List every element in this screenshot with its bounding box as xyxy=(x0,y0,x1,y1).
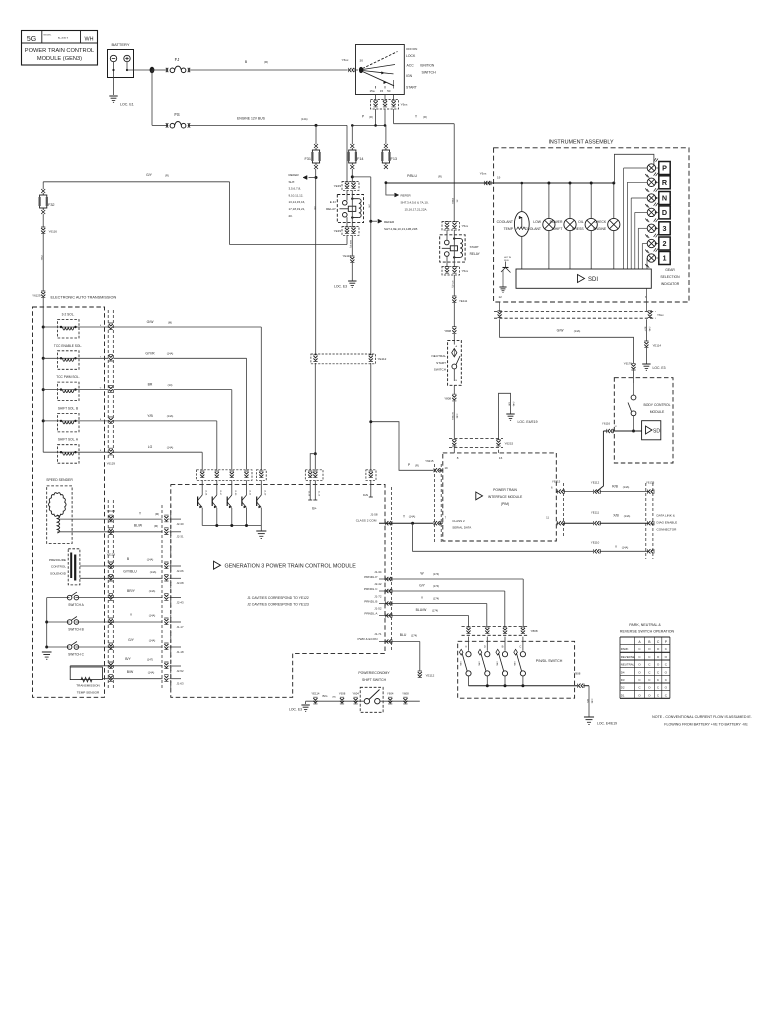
svg-text:YE39: YE39 xyxy=(334,229,342,233)
transistor instrument driver xyxy=(499,257,511,292)
solenoid 3-2 SOL. xyxy=(43,313,108,339)
power train control module box xyxy=(171,484,385,697)
wire P/N/DL common rail xyxy=(469,684,590,687)
svg-text:16: 16 xyxy=(499,456,503,460)
fuse FJ xyxy=(166,57,190,73)
transmission temp sensor xyxy=(70,667,102,694)
svg-text:BLU: BLU xyxy=(400,633,407,637)
svg-text:D: D xyxy=(662,208,667,217)
switch P/N/DL contact A xyxy=(459,637,471,686)
svg-text:YE111: YE111 xyxy=(459,299,468,303)
lamp low coolant xyxy=(525,182,555,270)
svg-text:YE112: YE112 xyxy=(591,481,600,485)
svg-text:P/N/DL SWITCH: P/N/DL SWITCH xyxy=(536,659,563,663)
svg-text:J2-52: J2-52 xyxy=(177,669,184,673)
svg-text:(R): (R) xyxy=(165,173,169,177)
svg-text:PRNDL A: PRNDL A xyxy=(364,611,378,615)
connector Y604 pwr econ xyxy=(387,691,394,704)
svg-text:J1-18: J1-18 xyxy=(177,650,184,654)
power economy shift switch xyxy=(358,671,390,713)
SDI driver box xyxy=(516,269,651,288)
wire B/W temp sensor xyxy=(102,670,162,679)
svg-text:SWITCH B: SWITCH B xyxy=(68,628,84,632)
connector Y604 pwr econ xyxy=(352,691,359,704)
power train interface module xyxy=(443,453,557,541)
svg-text:(174): (174) xyxy=(433,584,439,588)
svg-text:G/W: G/W xyxy=(147,320,155,324)
svg-text:B/W (R): B/W (R) xyxy=(349,240,351,248)
svg-text:12: 12 xyxy=(499,295,503,299)
svg-text:RUN: RUN xyxy=(504,260,509,262)
connector PCM J2-52 xyxy=(164,662,184,673)
battery xyxy=(108,42,134,95)
svg-text:YE39: YE39 xyxy=(334,184,342,188)
connector Y6129 SHIFT SOL. A xyxy=(109,448,113,455)
wire F31 down to PCM B+ xyxy=(313,169,316,454)
connector Y808 upper xyxy=(444,327,456,334)
svg-text:J1-72: J1-72 xyxy=(374,594,382,598)
connector PCM J2-43 xyxy=(164,594,184,605)
svg-text:LOC. E4/E19: LOC. E4/E19 xyxy=(597,722,617,726)
svg-text:NEUTRAL: NEUTRAL xyxy=(621,663,635,667)
svg-text:GRN: GRN xyxy=(459,661,461,666)
wire Y808 pin 8 into PIM xyxy=(453,447,455,453)
svg-text:YE116: YE116 xyxy=(343,254,352,258)
svg-text:(174): (174) xyxy=(432,608,438,612)
svg-text:YE114: YE114 xyxy=(653,344,662,348)
svg-text:J1-52: J1-52 xyxy=(374,606,382,610)
svg-text:J2-30: J2-30 xyxy=(177,522,184,526)
svg-text:J2-50: J2-50 xyxy=(234,490,236,496)
connector column Y6129 lower xyxy=(108,500,113,688)
connector Y6129 3-2 SOL. xyxy=(109,323,113,330)
connector Y6215 pin6 xyxy=(558,489,565,493)
gear selection indicator boxes xyxy=(659,162,680,287)
connector Y6xx instrument xyxy=(480,172,501,186)
svg-text:POWER/ECONOMY: POWER/ECONOMY xyxy=(358,671,390,675)
svg-text:SHT.: SHT. xyxy=(289,180,296,184)
svg-text:P: P xyxy=(662,164,667,173)
wire G/W solenoid to PCM xyxy=(114,320,262,466)
switch neutral start xyxy=(432,334,462,385)
svg-text:START: START xyxy=(436,361,446,365)
connector row Y808 xyxy=(462,627,538,636)
wire P(R) ignition feed to PIM xyxy=(369,420,443,470)
svg-text:F32: F32 xyxy=(48,203,55,207)
svg-text:J1-34: J1-34 xyxy=(374,570,382,574)
svg-text:15,16,17,21,22A.: 15,16,17,21,22A. xyxy=(405,208,428,212)
connector row Y6215 xyxy=(449,439,514,448)
svg-text:J2-42: J2-42 xyxy=(249,490,251,496)
svg-text:START: START xyxy=(406,86,417,90)
lamp power shift xyxy=(550,182,577,270)
svg-text:SWITCH: SWITCH xyxy=(434,368,446,372)
svg-text:PRNDL B: PRNDL B xyxy=(364,599,377,603)
svg-text:J2-42: J2-42 xyxy=(374,582,382,586)
svg-text:(14A): (14A) xyxy=(149,589,156,593)
fuse F31 xyxy=(304,144,319,169)
svg-text:DATA LINK &: DATA LINK & xyxy=(657,514,676,518)
lamp oil press xyxy=(572,182,597,270)
connector YE116 xyxy=(343,254,355,263)
svg-text:BR: BR xyxy=(148,383,153,387)
svg-text:G/W: G/W xyxy=(557,329,565,333)
svg-text:Y604: Y604 xyxy=(387,691,394,695)
svg-text:Y6xx: Y6xx xyxy=(480,172,487,176)
ground LOC. E3 right xyxy=(642,348,665,370)
wire G/Y/BLU pressure solenoid xyxy=(80,570,163,579)
svg-text:(14A): (14A) xyxy=(301,117,308,121)
svg-text:R: R xyxy=(662,178,668,187)
svg-text:(14A): (14A) xyxy=(149,614,156,618)
svg-text:BLU/W: BLU/W xyxy=(416,608,428,612)
instrument assembly box xyxy=(494,140,689,303)
connector Y6129 TCC ENABLE SOL. xyxy=(109,354,113,361)
svg-text:POWER: POWER xyxy=(550,220,563,224)
solenoid TCC PWM SOL. xyxy=(43,375,108,401)
svg-text:IGN: IGN xyxy=(363,493,368,497)
svg-text:SHIFT SWITCH: SHIFT SWITCH xyxy=(362,678,387,682)
svg-text:BATTERY: BATTERY xyxy=(111,42,129,47)
wire start relay to neutral start switch xyxy=(451,275,454,296)
wire Y6116 to SDI xyxy=(603,430,641,432)
wire ignition 50 to start relay xyxy=(394,95,458,222)
svg-text:A: A xyxy=(465,645,467,649)
svg-text:(R): (R) xyxy=(369,115,373,119)
svg-text:X/B: X/B xyxy=(613,514,619,518)
connector YE114 pwr econ xyxy=(311,691,320,704)
svg-text:CLASS 2: CLASS 2 xyxy=(452,519,465,523)
svg-text:F31: F31 xyxy=(304,157,311,161)
svg-text:(14A): (14A) xyxy=(622,545,629,549)
svg-text:Y6129: Y6129 xyxy=(107,462,116,466)
svg-text:G/Y: G/Y xyxy=(128,638,135,642)
wire Y6215 to ground LOC. E4/E19 xyxy=(499,393,538,440)
svg-text:SHIFT: SHIFT xyxy=(553,227,563,231)
svg-text:HOT IN: HOT IN xyxy=(504,257,512,259)
svg-text:SHIFT SOL. A: SHIFT SOL. A xyxy=(58,438,79,442)
wire battery positive to FJ junction xyxy=(127,69,152,71)
connector Y6129 TCC PWM SOL. xyxy=(109,386,113,393)
svg-text:CONNECTOR: CONNECTOR xyxy=(657,528,678,532)
connector Y6105 pair xyxy=(107,509,116,535)
svg-text:PRESSURE: PRESSURE xyxy=(49,558,66,562)
svg-text:GEAR: GEAR xyxy=(665,268,675,272)
connector PCM J1-63 xyxy=(164,675,184,686)
svg-text:BR/Y: BR/Y xyxy=(127,589,136,593)
connector Y808 common xyxy=(574,672,584,688)
svg-text:(R): (R) xyxy=(423,115,427,119)
svg-text:INDICATOR: INDICATOR xyxy=(661,282,680,286)
svg-text:IGN: IGN xyxy=(406,74,413,78)
connector YE39 upper xyxy=(334,182,359,191)
svg-text:(14): (14) xyxy=(168,383,173,387)
wire F31 drop xyxy=(315,125,317,144)
svg-text:D2: D2 xyxy=(621,686,625,690)
wire power economy row xyxy=(306,694,420,701)
wire Y PRNDL B xyxy=(364,594,487,627)
svg-text:J2-49: J2-49 xyxy=(264,490,266,496)
switch P/N/DL contact B xyxy=(495,637,507,686)
wire F14 drop xyxy=(351,125,353,144)
connector Y608 pwr econ xyxy=(402,691,409,704)
svg-text:IGNITION: IGNITION xyxy=(420,64,435,68)
connector Y6129 SWITCH B xyxy=(109,618,113,625)
svg-text:Y608: Y608 xyxy=(402,691,409,695)
svg-text:11: 11 xyxy=(546,516,549,520)
connector YE110 xyxy=(591,541,601,554)
wire Y to data link xyxy=(413,523,648,551)
svg-text:(R): (R) xyxy=(438,174,442,178)
wire ignition 15a to bus xyxy=(375,95,377,100)
svg-text:(PIM): (PIM) xyxy=(501,502,509,506)
svg-text:J2 CAVITIES CORRESPOND TO YE12: J2 CAVITIES CORRESPOND TO YE123 xyxy=(247,603,309,607)
svg-text:E.F.I: E.F.I xyxy=(330,200,336,204)
svg-text:B/W: B/W xyxy=(127,670,134,674)
connector PCM J2-08 xyxy=(164,574,184,585)
svg-text:19: 19 xyxy=(445,466,449,470)
svg-text:SDI: SDI xyxy=(653,429,661,435)
connector column Y6129 xyxy=(107,310,116,466)
svg-text:J2-47: J2-47 xyxy=(219,490,221,496)
fuse F13 xyxy=(382,144,397,169)
svg-text:ACC: ACC xyxy=(407,64,415,68)
connector PCM J1-34 xyxy=(385,577,392,581)
svg-text:J2-08: J2-08 xyxy=(177,581,184,585)
relay start xyxy=(440,230,481,266)
svg-text:BL/W: BL/W xyxy=(134,524,143,528)
wire BR solenoid to PCM xyxy=(114,383,232,466)
svg-text:20.: 20. xyxy=(289,214,293,218)
svg-text:MODULE: MODULE xyxy=(650,410,665,414)
svg-text:E/B: E/B xyxy=(507,402,509,406)
svg-text:Y608: Y608 xyxy=(339,691,346,695)
svg-text:(174): (174) xyxy=(433,596,439,600)
svg-text:SELECTION: SELECTION xyxy=(660,275,680,279)
wire LG solenoid to PCM xyxy=(114,445,203,466)
svg-text:3,5,6,7,8,: 3,5,6,7,8, xyxy=(289,187,302,191)
svg-text:B: B xyxy=(502,645,504,649)
svg-text:SHT.4,9E,10,13,14B,21B: SHT.4,9E,10,13,14B,21B xyxy=(384,227,417,231)
wire EFI relay output to ground xyxy=(349,235,352,255)
svg-text:CONTROL: CONTROL xyxy=(51,565,66,569)
solenoid SHIFT SOL. B xyxy=(43,406,108,432)
switch SWITCH C xyxy=(47,638,163,656)
svg-text:YE112: YE112 xyxy=(426,673,435,677)
svg-text:(14A): (14A) xyxy=(623,485,630,489)
svg-text:B/G: B/G xyxy=(323,694,329,698)
svg-text:(R): (R) xyxy=(456,200,458,203)
svg-text:SHIFT SOL. B: SHIFT SOL. B xyxy=(58,406,78,410)
ground LOC. E3 pwr econ xyxy=(289,701,310,711)
connector PCM J1-71 xyxy=(385,639,392,643)
fuse FS xyxy=(166,112,190,128)
wire IGN into PCM xyxy=(363,480,373,497)
svg-text:LG: LG xyxy=(148,445,153,449)
wire switch bus left xyxy=(42,598,52,660)
wire CLASS 2 COM xyxy=(356,512,443,524)
svg-text:(147): (147) xyxy=(147,658,153,662)
svg-text:CHECK: CHECK xyxy=(594,220,607,224)
svg-text:G/Y: G/Y xyxy=(419,584,426,588)
connector YE114 right xyxy=(644,341,661,348)
svg-text:NEUTRAL: NEUTRAL xyxy=(432,354,447,358)
wire G/Y/BLU to Y6215 xyxy=(451,402,459,439)
transistor drivers in PCM xyxy=(198,466,267,539)
svg-text:Y6176: Y6176 xyxy=(624,362,633,366)
svg-text:LOC. E3: LOC. E3 xyxy=(653,366,666,370)
svg-text:SWITCH C: SWITCH C xyxy=(68,653,84,657)
svg-text:GENERATION 3 POWER TRAIN CONTR: GENERATION 3 POWER TRAIN CONTROL MODULE xyxy=(225,564,357,570)
svg-text:REFER: REFER xyxy=(401,194,412,198)
svg-text:Y/B: Y/B xyxy=(147,414,153,418)
svg-text:GRN: GRN xyxy=(495,661,497,666)
svg-text:GRN: GRN xyxy=(513,661,515,666)
data link and diag enable connector xyxy=(646,483,677,559)
svg-text:SPEED SENDER: SPEED SENDER xyxy=(46,478,73,482)
svg-text:2/R: 2/R xyxy=(368,204,370,208)
svg-text:SOLENOID: SOLENOID xyxy=(50,571,67,575)
svg-text:FS: FS xyxy=(174,112,180,117)
svg-text:N: N xyxy=(662,194,667,203)
svg-text:PWR & ECON: PWR & ECON xyxy=(358,637,378,641)
svg-text:Y6xx: Y6xx xyxy=(657,313,664,317)
svg-text:3: 3 xyxy=(663,224,667,233)
svg-text:R/BLU: R/BLU xyxy=(451,198,453,205)
svg-text:Y6215: Y6215 xyxy=(425,459,434,463)
refer note 1 xyxy=(289,173,317,218)
svg-text:TCC ENABLE SOL.: TCC ENABLE SOL. xyxy=(54,344,82,348)
svg-text:REFER: REFER xyxy=(384,220,395,224)
wire bus segment right xyxy=(315,124,387,127)
svg-text:G/Y: G/Y xyxy=(146,173,153,177)
svg-text:B/Y: B/Y xyxy=(125,657,131,661)
switch P/N/DL contact C xyxy=(513,637,525,686)
svg-text:YE112: YE112 xyxy=(378,357,387,361)
fuse F14 xyxy=(349,144,364,169)
svg-text:(14A): (14A) xyxy=(648,327,651,332)
svg-text:2/R: 2/R xyxy=(313,206,315,210)
svg-text:(14A): (14A) xyxy=(574,329,581,333)
svg-text:REFER: REFER xyxy=(289,173,300,177)
wire F32 to transmission xyxy=(40,234,43,291)
wire G/Y PRNDL C xyxy=(364,582,505,627)
wire ignition 15 to bus xyxy=(362,95,385,126)
title block xyxy=(22,31,98,66)
svg-text:15a: 15a xyxy=(369,89,374,93)
wire BLU PWR & ECON xyxy=(358,632,420,671)
connector PCM J2-06 xyxy=(164,562,184,573)
svg-text:(14A): (14A) xyxy=(150,570,157,574)
P/N/DL switch box xyxy=(458,641,575,698)
svg-text:D3: D3 xyxy=(621,678,625,682)
switch SWITCH B xyxy=(47,613,163,631)
svg-text:INSTRUMENT ASSEMBLY: INSTRUMENT ASSEMBLY xyxy=(548,140,614,146)
svg-text:J2-38: J2-38 xyxy=(307,491,309,497)
svg-text:C: C xyxy=(519,645,521,649)
svg-text:D4: D4 xyxy=(621,670,625,674)
svg-text:AL-4060 II: AL-4060 II xyxy=(58,37,68,40)
gauge coolant temp xyxy=(497,182,530,269)
svg-text:30: 30 xyxy=(360,59,364,63)
connector YE112 pwr econ xyxy=(418,671,435,678)
svg-text:BL/Y: BL/Y xyxy=(643,327,645,332)
lamp check engine xyxy=(593,182,620,270)
svg-text:RELAY: RELAY xyxy=(470,252,481,256)
wire B+ into PCM xyxy=(307,452,319,510)
svg-text:F14: F14 xyxy=(357,157,364,161)
ground LOC. E1 xyxy=(109,96,133,107)
svg-text:Y5xx: Y5xx xyxy=(462,269,469,273)
connector PCM J2-30 xyxy=(164,515,184,526)
connector column Y6215 vertical xyxy=(425,459,448,543)
svg-text:D: D xyxy=(484,645,486,649)
svg-text:TRANSMISSION: TRANSMISSION xyxy=(76,684,100,688)
wire W PRNDL P xyxy=(364,570,523,627)
svg-text:SERIAL DATA: SERIAL DATA xyxy=(452,525,471,529)
connector row PCM top B+ xyxy=(305,470,376,481)
connector column YE123 PCM left xyxy=(162,505,171,690)
connector PCM J1-52 xyxy=(385,613,392,617)
svg-text:(M): (M) xyxy=(155,512,159,516)
wire F14 to EFI relay and B+ xyxy=(351,169,371,470)
connector PCM J1-72 xyxy=(385,601,392,605)
connector row instrument outputs xyxy=(494,288,664,318)
SDI box in BCM xyxy=(642,421,662,440)
svg-text:Y5xx: Y5xx xyxy=(462,224,469,228)
switch P/N/DL contact D xyxy=(478,637,490,686)
svg-text:50: 50 xyxy=(387,89,391,93)
svg-text:COOLANT: COOLANT xyxy=(497,220,513,224)
wire transmission solenoid bus xyxy=(42,298,45,452)
gear selection indicator lamps xyxy=(624,158,659,269)
svg-text:J1-71: J1-71 xyxy=(374,632,382,636)
wire ENGINE 12V BUS xyxy=(152,117,347,126)
svg-text:G/Y/R: G/Y/R xyxy=(145,351,155,355)
wire junction down to FS xyxy=(151,70,153,125)
svg-text:YE110: YE110 xyxy=(591,541,600,545)
connector Y6129 pressure pair xyxy=(107,552,116,581)
svg-text:Y6xx: Y6xx xyxy=(342,58,349,62)
svg-text:(R): (R) xyxy=(264,60,268,64)
svg-text:Y604: Y604 xyxy=(352,691,359,695)
svg-text:9,10,11,12,: 9,10,11,12, xyxy=(289,193,304,197)
svg-text:SHT.3,4,5,6 & 7A,10,: SHT.3,4,5,6 & 7A,10, xyxy=(401,201,429,205)
PCM label xyxy=(214,561,357,569)
svg-text:(R): (R) xyxy=(415,463,419,467)
connector Y6129 temp pair xyxy=(109,662,113,681)
pressure control solenoid xyxy=(49,549,80,585)
park neutral reverse switch operation table xyxy=(620,623,675,698)
svg-text:(174): (174) xyxy=(433,572,439,576)
connector YE111 start xyxy=(452,296,467,303)
svg-text:5G: 5G xyxy=(27,36,36,43)
svg-text:(14A): (14A) xyxy=(148,670,155,674)
svg-text:Y808: Y808 xyxy=(531,629,538,633)
svg-text:FLOWING FROM BATTERY +VE TO BA: FLOWING FROM BATTERY +VE TO BATTERY -VE xyxy=(664,723,748,727)
svg-text:J1-17: J1-17 xyxy=(177,625,184,629)
svg-text:D1: D1 xyxy=(621,693,625,697)
connector Y6129 SWITCH A xyxy=(109,594,113,601)
wire bus drop to EFI relay xyxy=(346,125,348,181)
svg-text:COOLANT: COOLANT xyxy=(525,227,541,231)
wire G/W instrument to BCM xyxy=(500,319,634,363)
svg-text:(M): (M) xyxy=(332,696,336,698)
svg-text:OIL: OIL xyxy=(578,220,584,224)
connector YE112 data xyxy=(591,481,601,494)
svg-text:(M): (M) xyxy=(168,320,172,324)
svg-text:3-2 SOL.: 3-2 SOL. xyxy=(62,313,75,317)
